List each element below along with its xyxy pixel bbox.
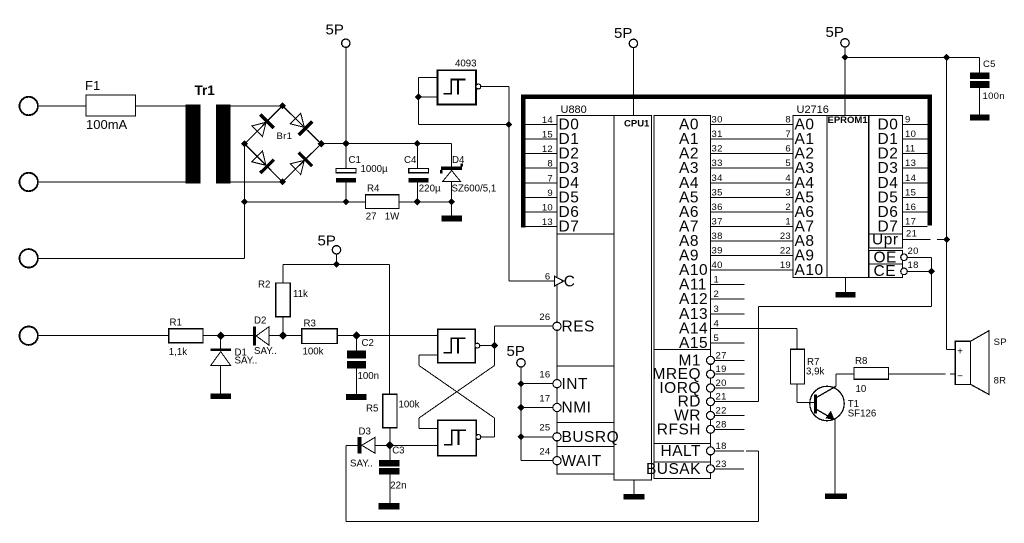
svg-text:100k: 100k (399, 399, 420, 410)
EPROM address box (793, 115, 827, 277)
CPU pin D4 stub (525, 182, 557, 184)
terminal input 2 (20, 173, 38, 191)
capacitor C4 (409, 169, 429, 173)
svg-text:3: 3 (785, 187, 791, 198)
svg-text:F1: F1 (85, 78, 100, 93)
svg-text:100k: 100k (303, 347, 324, 358)
svg-text:25: 25 (539, 423, 550, 434)
wire HALT to D3 net (758, 451, 760, 522)
svg-text:C3: C3 (392, 446, 404, 457)
capacitor C2 (356, 336, 358, 351)
svg-text:C1: C1 (349, 155, 361, 166)
EPROM CE pin bubble (901, 268, 908, 275)
CPU pin BUSAK stub (714, 468, 744, 470)
terminal input 3 (20, 249, 38, 267)
CPU HALT pin bubble (707, 447, 715, 455)
svg-text:2: 2 (785, 202, 791, 213)
svg-text:2: 2 (714, 289, 720, 300)
wire DC+ rail (321, 143, 451, 145)
CPU clock pin triangle (555, 276, 564, 286)
wire vertical to speaker plus (946, 57, 948, 349)
bridge diode top-right (299, 122, 312, 136)
wire R8 to speaker (889, 373, 946, 375)
svg-text:CPU1: CPU1 (624, 119, 650, 130)
svg-text:8: 8 (785, 115, 791, 126)
wire 5P2 rail (283, 263, 390, 265)
EPROM OE/CE box (869, 251, 903, 278)
EPROM pin D0 stub (903, 124, 928, 126)
svg-text:1W: 1W (385, 212, 400, 223)
junction NMI (517, 404, 524, 411)
wire U1 tie to feedback (418, 124, 508, 126)
terminal 5P supply 2 (332, 246, 340, 254)
diode D1 (220, 336, 222, 349)
svg-text:39: 39 (712, 246, 723, 257)
svg-text:4: 4 (714, 318, 720, 329)
svg-text:D2: D2 (254, 315, 266, 326)
junction bridge left (241, 140, 248, 147)
wire 5P5 rail (520, 367, 522, 461)
capacitor C3 (389, 445, 391, 460)
wire address A5 CPU to EPROM (711, 196, 794, 198)
svg-text:+: + (957, 347, 963, 358)
fuse F1 (86, 95, 136, 116)
wire address A6 CPU to EPROM (711, 211, 794, 213)
junction bridge top (279, 102, 286, 109)
CPU IORQ pin bubble (707, 384, 715, 392)
wire cross gate2out to gate1in (419, 366, 495, 419)
junction BUSRQ (517, 433, 524, 440)
wire DC- rail right (399, 201, 452, 203)
svg-text:RES: RES (562, 319, 595, 336)
wire R3 to gate1 (337, 335, 438, 337)
wire U1 inputs tie (418, 77, 437, 79)
junction DC- D4 (448, 198, 455, 205)
ground below C2 (346, 394, 366, 400)
junction U1 feedback (505, 121, 512, 128)
svg-text:21: 21 (716, 392, 727, 403)
EPROM pin D7 stub (903, 225, 928, 227)
bridge rectifier Br1 outline (245, 106, 322, 182)
svg-text:34: 34 (712, 173, 723, 184)
ground below C5 (970, 115, 990, 121)
EPROM ground (845, 278, 847, 293)
junction 5P4 branch (841, 54, 848, 61)
CPU pin IORQ stub (714, 387, 745, 389)
svg-text:19: 19 (716, 364, 727, 375)
svg-text:1000µ: 1000µ (361, 164, 389, 175)
svg-text:11k: 11k (293, 289, 308, 300)
svg-text:14: 14 (542, 115, 553, 126)
svg-text:16: 16 (905, 202, 916, 213)
svg-text:D4: D4 (452, 155, 465, 166)
CPU address box (654, 115, 711, 349)
svg-text:5P: 5P (826, 24, 844, 41)
svg-text:U2716: U2716 (797, 104, 829, 116)
junction C2 node (352, 332, 360, 340)
wire address A1 CPU to EPROM (711, 138, 794, 140)
CPU M1 pin bubble (707, 356, 715, 364)
svg-text:13: 13 (905, 158, 916, 169)
svg-text:18: 18 (908, 260, 919, 271)
CPU pin D5 stub (525, 196, 557, 198)
svg-text:WAIT: WAIT (562, 453, 602, 470)
wire cross gate1out to gate2in (419, 366, 495, 419)
wire 5P4 down (844, 47, 846, 115)
CPU pin RD stub (714, 401, 759, 403)
wire address A3 CPU to EPROM (711, 167, 794, 169)
svg-text:BUSRQ: BUSRQ (562, 429, 620, 446)
CPU RES pin bubble (553, 322, 561, 330)
EPROM pin D2 stub (903, 153, 928, 155)
CPU RD pin bubble (707, 398, 715, 406)
resistor R3 (302, 329, 338, 344)
terminal input 1 (20, 97, 38, 115)
svg-text:SP: SP (994, 337, 1007, 348)
wire address A4 CPU to EPROM (711, 182, 794, 184)
svg-text:4093: 4093 (455, 59, 477, 70)
svg-text:24: 24 (539, 447, 550, 458)
svg-text:13: 13 (542, 217, 553, 228)
svg-text:5P: 5P (614, 25, 632, 42)
wire 5P1 down (345, 47, 347, 143)
junction DC- C4 (414, 198, 421, 205)
svg-text:31: 31 (712, 129, 723, 140)
capacitor C5 (979, 57, 981, 72)
svg-text:28: 28 (716, 419, 727, 430)
CPU WR pin bubble (707, 412, 715, 420)
svg-text:19: 19 (780, 260, 791, 271)
svg-text:D3: D3 (359, 426, 371, 437)
svg-text:20: 20 (716, 378, 727, 389)
svg-text:CE: CE (874, 263, 897, 280)
wire terminal1 to fuse (38, 105, 86, 107)
svg-text:38: 38 (712, 231, 723, 242)
svg-text:21: 21 (906, 229, 917, 240)
bridge diode top-left (260, 115, 273, 128)
ground below D4 (451, 202, 453, 216)
wire to INT (521, 383, 553, 385)
svg-text:14: 14 (905, 173, 916, 184)
CPU INT/NMI box (557, 366, 614, 423)
junction Upr vertical (943, 236, 950, 243)
resistor R5 (389, 264, 391, 394)
wire R1 to D2 (203, 335, 253, 337)
svg-text:3: 3 (714, 304, 720, 315)
schmitt gate U1 4093 (438, 70, 477, 104)
svg-text:7: 7 (785, 129, 791, 140)
wire terminal2 to transformer (38, 181, 185, 183)
CPU WAIT box (557, 447, 614, 475)
ground below D1 (211, 394, 232, 400)
CPU pin D2 stub (525, 153, 557, 155)
junction 5P2 (333, 261, 340, 268)
svg-text:SZ600/5,1: SZ600/5,1 (452, 183, 497, 194)
svg-text:3,9k: 3,9k (806, 366, 824, 377)
ground below C3 (379, 503, 400, 510)
svg-text:10: 10 (542, 202, 553, 213)
terminal 5P supply 1 (342, 39, 350, 47)
wire U1 output (481, 86, 509, 88)
svg-text:A10: A10 (795, 262, 824, 279)
EPROM pin D1 stub (903, 138, 928, 140)
CPU WAIT pin bubble (553, 457, 561, 465)
terminal 5P supply 4 (841, 39, 849, 47)
svg-text:4: 4 (785, 173, 791, 184)
svg-text:SAY..: SAY.. (350, 459, 373, 470)
svg-text:18: 18 (716, 441, 727, 452)
svg-text:16: 16 (539, 370, 550, 381)
wire secondary top to bridge (231, 105, 283, 107)
transformer Tr1 primary bar (186, 105, 201, 184)
CPU pin D3 stub (525, 167, 557, 169)
transformer Tr1 secondary bar (216, 105, 231, 184)
wire gate1 out to RES (495, 325, 553, 327)
CPU spine box (614, 115, 652, 480)
EPROM Upr box (869, 234, 903, 248)
svg-text:5P: 5P (326, 22, 344, 39)
junction DC- C1 (342, 198, 349, 205)
CPU pin RFSH stub (714, 428, 745, 430)
wire to NMI (521, 407, 553, 409)
svg-text:C: C (564, 273, 576, 290)
svg-text:22: 22 (716, 406, 727, 417)
svg-text:R1: R1 (170, 318, 182, 329)
CPU BUSRQ box (557, 423, 614, 447)
svg-text:15: 15 (542, 130, 553, 141)
svg-text:220µ: 220µ (419, 183, 441, 194)
CPU NMI pin bubble (553, 403, 561, 411)
junction C5 branch vertical (943, 54, 950, 61)
gate U2B output bubble (476, 435, 481, 440)
svg-text:SF126: SF126 (848, 409, 877, 420)
EPROM data box (869, 115, 903, 234)
wire address A7 CPU to EPROM (711, 225, 794, 227)
CPU pin MREQ stub (714, 373, 745, 375)
EPROM pin D6 stub (903, 211, 928, 213)
wire gate2 input from C3 (390, 444, 438, 446)
EPROM pin D4 stub (903, 182, 928, 184)
wire A14 to R7 (711, 327, 798, 329)
node junction C4 top (414, 140, 421, 147)
junction D1 node (217, 332, 225, 340)
wire 5P4 branch to C5 (845, 56, 980, 58)
CPU control box (654, 349, 711, 443)
CPU pin HALT stub (714, 450, 744, 452)
svg-text:NMI: NMI (562, 400, 592, 417)
junction C3 node (386, 441, 394, 449)
data bus thick line (523, 97, 930, 228)
svg-text:26: 26 (539, 312, 550, 323)
CPU BUSRQ pin bubble (553, 433, 561, 441)
diode D2 (253, 327, 256, 346)
wire DC- rail left (245, 201, 366, 203)
EPROM pin D5 stub (903, 196, 928, 198)
wire fuse to transformer (136, 105, 186, 107)
svg-text:R2: R2 (258, 280, 270, 291)
svg-text:17: 17 (905, 216, 916, 227)
svg-text:U880: U880 (561, 104, 587, 116)
svg-text:35: 35 (712, 187, 723, 198)
CPU MREQ pin bubble (707, 370, 715, 378)
CPU data pin box (557, 115, 614, 234)
junction gate1 output (491, 342, 498, 349)
junction U1 input tie (415, 93, 422, 100)
svg-text:5: 5 (785, 158, 791, 169)
svg-text:RFSH: RFSH (657, 421, 701, 438)
svg-text:100n: 100n (358, 371, 380, 382)
CPU INT pin bubble (553, 380, 561, 388)
EPROM pin Upr stub (903, 239, 931, 241)
CPU pin D1 stub (525, 138, 557, 140)
svg-text:Tr1: Tr1 (195, 83, 216, 98)
CPU pin D0 stub (525, 124, 557, 126)
capacitor C1 (336, 169, 356, 173)
CPU pin A15 stub (711, 342, 745, 344)
svg-text:22n: 22n (390, 481, 406, 492)
svg-text:7: 7 (547, 173, 553, 184)
junction INT (517, 380, 524, 387)
CPU pin M1 stub (714, 359, 745, 361)
schmitt gate U2B (438, 420, 476, 455)
svg-text:6: 6 (545, 272, 551, 283)
transistor T1 (810, 386, 844, 420)
wire emitter to ground (834, 419, 836, 494)
svg-text:C5: C5 (983, 59, 996, 70)
gate U2A output bubble (475, 343, 480, 348)
wire address A2 CPU to EPROM (711, 153, 794, 155)
CPU pin A11 stub (711, 284, 745, 286)
svg-text:22: 22 (780, 246, 791, 257)
resistor R1 (169, 329, 203, 343)
svg-text:10: 10 (856, 384, 867, 395)
wire to BUSRQ (521, 436, 553, 438)
svg-text:20: 20 (908, 246, 919, 257)
wire terminal3 (38, 257, 245, 259)
svg-text:R4: R4 (367, 183, 380, 194)
svg-text:9: 9 (547, 188, 553, 199)
svg-text:INT: INT (562, 376, 589, 393)
svg-text:1: 1 (785, 216, 791, 227)
resistor R7 (790, 349, 804, 384)
svg-text:32: 32 (712, 144, 723, 155)
svg-text:36: 36 (712, 202, 723, 213)
svg-text:27: 27 (716, 350, 727, 361)
svg-text:SAY..: SAY.. (235, 355, 258, 366)
diode D3 (346, 444, 358, 446)
svg-text:17: 17 (539, 394, 550, 405)
svg-text:EPROM1: EPROM1 (828, 115, 869, 126)
svg-text:1,1k: 1,1k (169, 347, 187, 358)
svg-text:12: 12 (542, 144, 553, 155)
svg-text:30: 30 (712, 115, 723, 126)
CPU pin A12 stub (711, 298, 745, 300)
wire address A9 CPU to EPROM (711, 255, 794, 257)
wire RD to EPROM OE/CE (758, 306, 760, 401)
speaker SP (955, 341, 970, 384)
junction bridge bottom (279, 178, 286, 185)
svg-text:Br1: Br1 (277, 131, 293, 142)
wire gate1 lower input (419, 354, 438, 356)
zener diode D4 (451, 144, 453, 167)
svg-text:8: 8 (547, 159, 553, 170)
CPU ground (633, 480, 635, 494)
ground below T1 (825, 494, 847, 500)
svg-text:SAY..: SAY.. (254, 346, 277, 357)
svg-text:R8: R8 (855, 356, 867, 367)
svg-text:23: 23 (780, 231, 791, 242)
terminal 5P supply 3 (629, 39, 637, 47)
svg-text:27: 27 (366, 212, 377, 223)
CPU HALT box (654, 444, 711, 462)
svg-text:6: 6 (785, 144, 791, 155)
terminal input 4 (20, 327, 38, 345)
wire terminal4 to R1 (38, 335, 169, 337)
svg-text:R5: R5 (366, 403, 378, 414)
EPROM OE pin bubble (901, 254, 908, 261)
gate U1 output bubble (476, 84, 481, 89)
resistor R2 (282, 317, 284, 336)
wire bridge left down (244, 144, 246, 258)
wire 5P3 down (632, 48, 634, 116)
wire OE/CE down (930, 271, 932, 306)
wire address A10 CPU to EPROM (711, 269, 794, 271)
svg-text:10: 10 (905, 129, 916, 140)
CPU clock/reset box (557, 234, 614, 366)
EPROM pin D3 stub (903, 167, 928, 169)
svg-text:15: 15 (905, 187, 916, 198)
wire address A8 CPU to EPROM (711, 240, 794, 242)
svg-text:8R: 8R (994, 376, 1007, 387)
wire OE to CE tie (907, 256, 931, 258)
svg-text:100n: 100n (983, 91, 1005, 102)
svg-text:9: 9 (905, 115, 911, 126)
CPU BUSAK box (654, 462, 711, 478)
svg-text:Upr: Upr (872, 231, 898, 248)
resistor R4 (366, 195, 400, 209)
svg-text:100mA: 100mA (86, 117, 128, 132)
EPROM spine box (827, 115, 869, 277)
EPROM OE/CE divider (869, 263, 903, 265)
CPU pin A13 stub (711, 313, 745, 315)
svg-text:C2: C2 (362, 338, 374, 349)
bridge diode bottom-left (260, 160, 274, 173)
svg-text:37: 37 (712, 216, 723, 227)
svg-text:33: 33 (712, 158, 723, 169)
junction bridge right (318, 140, 325, 147)
svg-text:40: 40 (712, 260, 723, 271)
CPU RFSH pin bubble (707, 425, 715, 433)
CPU pin D6 stub (525, 211, 557, 213)
svg-text:D7: D7 (559, 218, 580, 235)
wire clock to CPU (509, 280, 555, 282)
junction OE/CE (928, 268, 935, 275)
CPU BUSAK pin bubble (707, 465, 715, 473)
junction R2 node (279, 332, 287, 340)
wire R7 to base (796, 384, 798, 403)
svg-text:11: 11 (905, 144, 915, 155)
schmitt gate U2A (438, 329, 475, 362)
svg-text:C4: C4 (404, 155, 417, 166)
node junction C1 top (342, 140, 349, 147)
wire gate1 output node (480, 345, 495, 347)
svg-text:R3: R3 (304, 318, 316, 329)
svg-text:−: − (957, 371, 963, 382)
CPU pin WR stub (714, 415, 745, 417)
junction DC- left (241, 198, 248, 205)
svg-text:HALT: HALT (661, 443, 702, 460)
wire collector to R8 (835, 374, 837, 387)
